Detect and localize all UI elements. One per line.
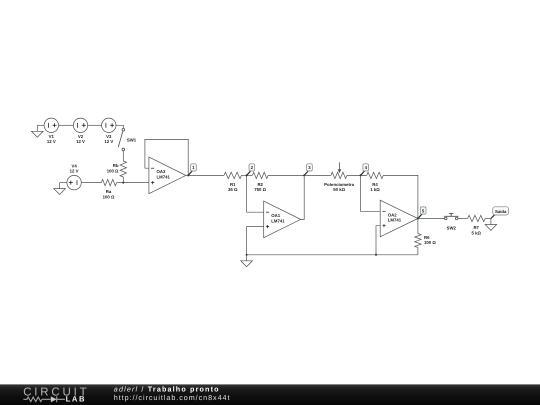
svg-text:100 Ω: 100 Ω — [103, 194, 115, 199]
wire OA1 output up to node 3 — [301, 175, 305, 219]
node 5 tag — [418, 207, 426, 219]
junction at OA3 output — [187, 174, 189, 176]
voltage source V4 — [67, 164, 81, 190]
resistor R4 1 kohm — [367, 172, 384, 192]
op-amp OA2 LM741 — [380, 200, 418, 237]
junction node 3 — [303, 174, 305, 176]
svg-text:LM741: LM741 — [271, 219, 285, 224]
junction node 2 — [246, 174, 248, 176]
wire R1 to node 2 — [241, 174, 252, 176]
svg-text:12 V: 12 V — [104, 139, 113, 144]
svg-text:100 Ω: 100 Ω — [424, 240, 436, 245]
resistor R7 5 kohm — [468, 215, 486, 235]
wire OA3 output to R1 — [186, 174, 224, 176]
svg-text:12 V: 12 V — [70, 169, 79, 174]
wire V2-V3 — [88, 124, 102, 126]
svg-text:LAB: LAB — [66, 395, 87, 404]
wire OA1 + input to bottom rail — [247, 227, 264, 255]
logo diode — [51, 396, 65, 402]
resistor R2 750 ohm — [252, 172, 268, 192]
op-amp OA3 LM741 — [149, 157, 186, 194]
svg-text:http://circuitlab.com/cn8x44t: http://circuitlab.com/cn8x44t — [114, 393, 231, 402]
svg-text:OA1: OA1 — [271, 213, 280, 218]
switch SW1 (open) — [118, 128, 137, 150]
wire R6 to bottom rail — [417, 248, 419, 255]
node Saida tag — [491, 207, 509, 219]
svg-text:LM741: LM741 — [157, 175, 171, 180]
logo resistor zigzag — [23, 397, 50, 402]
wire SW1 to Rb — [122, 151, 124, 161]
voltage source V1 — [44, 118, 58, 144]
svg-text:750 Ω: 750 Ω — [254, 187, 266, 192]
pushbutton switch SW2 — [444, 213, 458, 230]
wire SW2 to R7 — [458, 218, 468, 220]
svg-text:LM741: LM741 — [388, 218, 402, 223]
svg-text:OA3: OA3 — [157, 169, 166, 174]
wire V4 to ground — [60, 182, 67, 184]
ground at V1 — [32, 125, 44, 137]
wire node 4 to OA2 - input — [361, 175, 381, 211]
op-amp OA1 LM741 — [264, 201, 301, 238]
voltage source V3 — [102, 118, 116, 144]
wire OA2 output to SW2 — [418, 218, 445, 220]
wire R2 to potentiometer — [268, 174, 331, 176]
svg-text:SW2: SW2 — [447, 226, 457, 231]
feedback wire OA3 output to - input — [145, 139, 188, 175]
junction at bottom rail — [246, 254, 248, 256]
junction node 4 — [360, 174, 362, 176]
node 2 tag — [247, 164, 255, 176]
resistor Rb 100 ohm (vertical) — [107, 161, 127, 177]
svg-text:1 kΩ: 1 kΩ — [370, 187, 380, 192]
node 3 tag — [304, 164, 312, 176]
potentiometer Potenciometro 50 kOhm — [324, 162, 354, 192]
svg-text:12 V: 12 V — [76, 139, 85, 144]
logo text CIRCUIT — [23, 386, 89, 398]
wire node 2 to OA1 - input — [247, 175, 264, 212]
svg-text:50 kΩ: 50 kΩ — [333, 187, 345, 192]
wire V4 to Ra — [81, 182, 101, 184]
wire OA2 + input to bottom rail — [376, 226, 380, 255]
feedback wire R4 to OA2 output — [383, 175, 418, 218]
junction OA2 + at rail — [375, 254, 377, 256]
ground at output — [485, 219, 497, 231]
svg-text:SW1: SW1 — [127, 138, 137, 143]
wire V3 to SW1 — [116, 125, 123, 128]
resistor R6 100 ohm (vertical) — [415, 234, 437, 248]
ground at V4 — [54, 183, 66, 195]
junction Rb/Ra — [122, 182, 124, 184]
wire OA2 output to R6 — [417, 219, 419, 234]
wire potentiometer to R4 — [347, 174, 367, 176]
wire V1 to ground — [37, 124, 44, 126]
svg-text:12 V: 12 V — [47, 139, 56, 144]
svg-text:5 kΩ: 5 kΩ — [471, 230, 481, 235]
svg-text:100 Ω: 100 Ω — [107, 168, 119, 173]
wire Rb to node — [122, 177, 124, 183]
node 1 tag — [188, 164, 196, 176]
bottom rail wire — [247, 254, 418, 256]
logo text LAB — [66, 395, 87, 404]
voltage source V2 — [73, 118, 87, 144]
wire Ra to junction — [117, 182, 124, 184]
footer url text — [114, 393, 231, 402]
node 4 tag — [361, 164, 369, 176]
svg-text:OA2: OA2 — [388, 212, 397, 217]
svg-text:Saida: Saida — [495, 209, 507, 214]
wire junction to OA3 + input — [123, 182, 149, 184]
wire R7 to output node — [485, 218, 491, 220]
resistor R1 36 ohm — [224, 172, 241, 192]
junction at OA2 output — [417, 218, 419, 220]
ground at OA1 — [241, 255, 253, 267]
resistor Ra 100 ohm — [101, 179, 116, 199]
footer title text — [114, 385, 220, 394]
wire V1-V2 — [59, 124, 74, 126]
svg-text:36 Ω: 36 Ω — [228, 187, 238, 192]
footer bar — [0, 384, 540, 405]
